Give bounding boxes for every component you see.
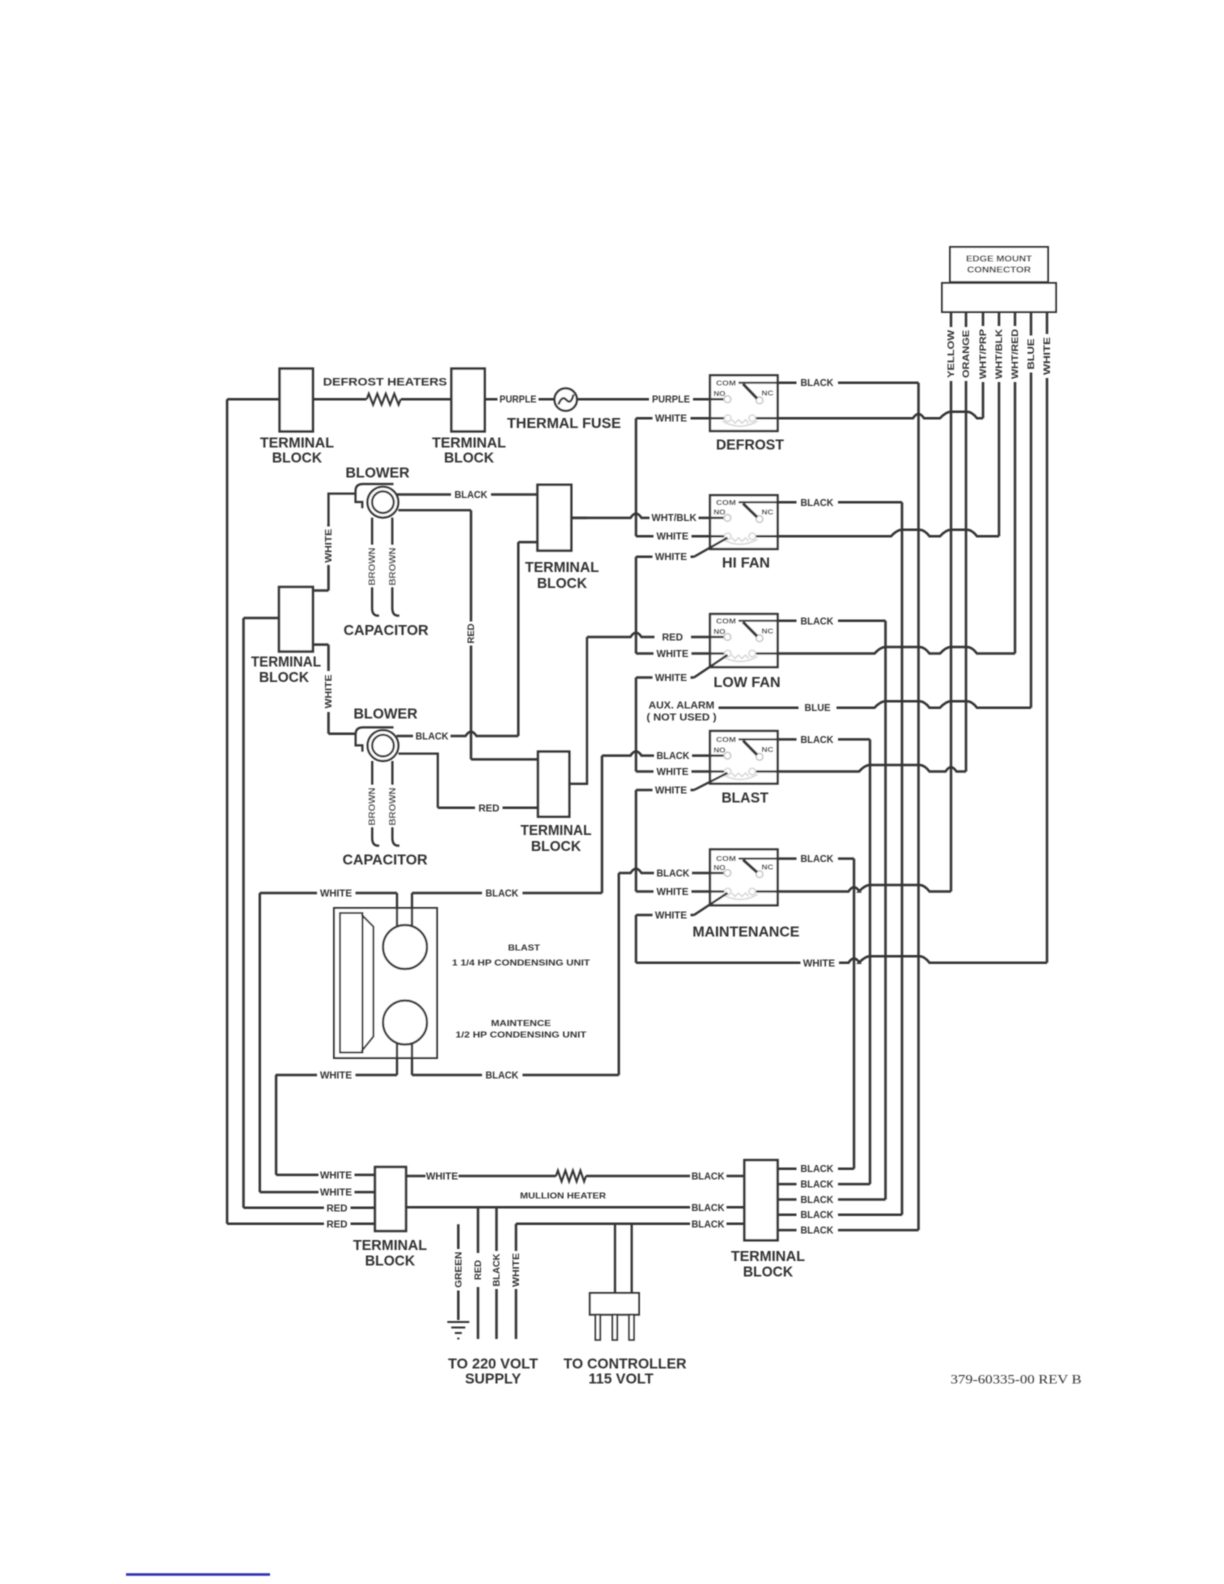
svg-text:BLOCK: BLOCK <box>537 575 587 592</box>
edge mount connector body <box>950 247 1048 282</box>
svg-text:BLAST: BLAST <box>508 943 541 953</box>
capacitor C2 wires <box>372 761 379 846</box>
svg-text:RED: RED <box>473 1259 483 1280</box>
svg-text:COM: COM <box>716 380 736 387</box>
wire MAINT aux diagonal <box>694 893 728 915</box>
ground symbol <box>447 1322 469 1339</box>
svg-text:TERMINAL: TERMINAL <box>353 1237 427 1254</box>
switch HI FAN COM line <box>739 501 778 503</box>
condensing unit panel <box>340 913 363 1053</box>
capacitor C2 wire label gaps <box>365 785 397 827</box>
wire B2 black to riser x=518 <box>397 732 519 736</box>
wire LOW FAN lamp input WHITE (left) <box>636 652 710 655</box>
switch LOW FAN NC contact <box>756 635 763 642</box>
switch MAINTENANCE NO contact <box>724 870 731 877</box>
terminal block TB4 <box>279 587 313 652</box>
bus wire MAINT black vertical <box>853 859 856 1169</box>
svg-text:WHITE: WHITE <box>657 887 689 898</box>
svg-text:BLACK: BLACK <box>692 1203 726 1214</box>
svg-text:RED: RED <box>662 633 683 644</box>
svg-text:WHITE: WHITE <box>657 532 689 543</box>
svg-text:BLOCK: BLOCK <box>365 1253 415 1270</box>
wire BLAST lamp to ORANGE <box>778 765 966 772</box>
wire connector BLUE (x=1031) <box>1030 312 1033 708</box>
svg-text:WHITE: WHITE <box>655 785 687 796</box>
footer blue rule <box>126 1573 270 1575</box>
svg-text:115 VOLT: 115 VOLT <box>589 1371 654 1388</box>
wire TB3 to HI FAN (WHT/BLK feed) <box>571 517 587 520</box>
svg-text:BLACK: BLACK <box>416 732 450 743</box>
switch BLAST box <box>710 731 778 784</box>
svg-text:BLACK: BLACK <box>657 869 691 880</box>
switch HI FAN lamp <box>723 533 758 544</box>
wire riser x=518 to TB3 <box>517 542 520 736</box>
svg-text:NC: NC <box>762 509 774 516</box>
svg-text:MAINTENCE: MAINTENCE <box>491 1018 551 1028</box>
svg-text:BLACK: BLACK <box>486 1071 520 1082</box>
wire connector WHT/RED (x=1015) <box>1014 312 1017 654</box>
capacitor C1 wires <box>372 518 379 616</box>
svg-text:WHITE: WHITE <box>655 673 687 684</box>
svg-text:WHITE: WHITE <box>320 1170 352 1181</box>
wire TB4 second white to blower B2 <box>313 643 329 646</box>
switch LOW FAN box <box>710 614 778 667</box>
wire white chain x=636 maint-to-common <box>635 915 638 963</box>
switch HI FAN NO contact <box>724 515 731 522</box>
svg-text:BLACK: BLACK <box>486 889 520 900</box>
switch MAINTENANCE lever <box>743 860 757 872</box>
wire connector YELLOW (x=951) <box>950 312 953 892</box>
svg-text:379-60335-00 REV B: 379-60335-00 REV B <box>951 1372 1082 1387</box>
svg-text:PURPLE: PURPLE <box>652 395 690 406</box>
svg-text:WHITE: WHITE <box>426 1172 458 1183</box>
wire white chain x=636 defrost-to-hifan <box>635 418 638 536</box>
svg-text:TERMINAL: TERMINAL <box>521 822 592 839</box>
switch BLAST lamp <box>723 768 758 779</box>
wire connector ORANGE (x=966) <box>965 312 968 772</box>
svg-text:BLACK: BLACK <box>801 1164 835 1175</box>
svg-text:BLACK: BLACK <box>492 1253 502 1287</box>
wire AUX ALARM to BLUE <box>719 701 1032 708</box>
svg-text:BLOCK: BLOCK <box>444 450 494 467</box>
terminal block TB5 <box>538 752 569 817</box>
switch MAINTENANCE lamp <box>723 888 758 899</box>
svg-text:PURPLE: PURPLE <box>500 395 537 406</box>
wire BLAST aux WHITE stub <box>636 789 694 792</box>
wire blast compressor white (left) <box>396 893 398 927</box>
wire MAINTENANCE lamp input WHITE (left) <box>636 890 710 893</box>
svg-text:BLACK: BLACK <box>801 378 835 389</box>
wire controller plug leads <box>615 1224 632 1293</box>
wire DEFROST lamp input WHITE (left) <box>636 417 710 420</box>
svg-text:BLOCK: BLOCK <box>743 1264 793 1281</box>
svg-text:WHT/BLK: WHT/BLK <box>652 513 698 524</box>
wire blast compressor black (right) <box>411 893 413 927</box>
svg-text:BLACK: BLACK <box>801 1195 835 1206</box>
wire LOW FAN lamp to WHT/RED <box>778 647 1015 654</box>
svg-text:AUX. ALARM: AUX. ALARM <box>649 701 715 712</box>
wire controller row y=1223.8 <box>516 1223 744 1226</box>
svg-text:WHITE: WHITE <box>511 1253 521 1287</box>
svg-text:WHITE: WHITE <box>324 529 334 563</box>
wire BLAST COM output BLACK <box>778 738 870 741</box>
wire WHITE supply <box>515 1224 518 1339</box>
switch DEFROST NO contact <box>724 396 731 403</box>
wire TB4 feed from left riser x=243 <box>242 618 245 1208</box>
wire BLAST lamp input WHITE (left) <box>636 770 710 773</box>
condensing unit maintenance compressor <box>383 1001 427 1045</box>
left border wire (x=227) <box>226 399 229 1224</box>
svg-text:DEFROST HEATERS: DEFROST HEATERS <box>323 377 447 389</box>
svg-text:CONNECTOR: CONNECTOR <box>967 265 1031 275</box>
wire HI FAN aux diagonal <box>694 538 728 557</box>
svg-text:NC: NC <box>762 391 774 398</box>
svg-text:TERMINAL: TERMINAL <box>251 654 321 671</box>
svg-text:BLUE: BLUE <box>1026 339 1036 370</box>
controller plug body <box>590 1293 639 1315</box>
svg-text:MULLION HEATER: MULLION HEATER <box>520 1191 606 1201</box>
wire connector WHT/BLK (x=999) <box>998 312 1001 536</box>
wire LOW FAN aux WHITE stub <box>636 676 694 679</box>
wire BLAST NO input BLACK <box>602 751 710 755</box>
switch BLAST lamp stubs <box>710 770 725 772</box>
svg-text:BLACK: BLACK <box>801 616 835 627</box>
svg-text:BLACK: BLACK <box>801 1226 835 1237</box>
svg-text:BLACK: BLACK <box>657 751 691 762</box>
switch MAINTENANCE NO input stub <box>710 872 724 874</box>
switch DEFROST box <box>710 375 778 431</box>
wire HI FAN lamp input WHITE (left) <box>636 535 710 538</box>
wire white chain x=636 blast-to-maint <box>635 790 638 892</box>
wire common white row to WHITE connector <box>636 956 1047 963</box>
svg-text:BLACK: BLACK <box>801 1210 835 1221</box>
wire DEFROST lamp to WHT/PRP <box>778 412 983 419</box>
switch BLAST NO contact <box>724 752 731 759</box>
svg-text:TERMINAL: TERMINAL <box>525 559 599 576</box>
wire supply row y=1207 <box>406 1206 744 1209</box>
wire maint compressor white (left) <box>396 1043 398 1075</box>
svg-text:WHITE: WHITE <box>655 413 687 424</box>
svg-text:COM: COM <box>716 500 736 507</box>
svg-text:RED: RED <box>466 623 476 644</box>
svg-text:MAINTENANCE: MAINTENANCE <box>693 924 800 941</box>
switch HI FAN NO input stub <box>710 517 724 519</box>
svg-text:BROWN: BROWN <box>367 788 377 826</box>
wire LOW FAN NO input RED <box>587 633 710 637</box>
svg-text:BROWN: BROWN <box>387 548 397 586</box>
wire HI FAN NO input WHT/BLK <box>571 514 710 518</box>
switch HI FAN lamp stubs <box>710 535 725 537</box>
svg-text:WHT/PRP: WHT/PRP <box>978 329 988 379</box>
svg-text:BLACK: BLACK <box>801 498 835 509</box>
switch DEFROST COM line <box>739 382 778 384</box>
svg-text:BLACK: BLACK <box>692 1219 726 1230</box>
svg-text:WHT/RED: WHT/RED <box>1010 328 1020 379</box>
svg-text:1/2 HP CONDENSING UNIT: 1/2 HP CONDENSING UNIT <box>456 1030 588 1040</box>
svg-text:COM: COM <box>716 737 736 744</box>
svg-text:THERMAL FUSE: THERMAL FUSE <box>507 415 621 432</box>
wire MAINTENANCE NO input BLACK <box>619 869 710 873</box>
svg-text:BLACK: BLACK <box>801 854 835 865</box>
svg-text:WHITE: WHITE <box>324 675 334 709</box>
wire white riser x=260 (blast) to TB6 <box>259 893 262 1192</box>
switch DEFROST lamp stubs <box>710 417 725 419</box>
switch LOW FAN COM line <box>739 620 778 622</box>
wire TB7 output 1 BLACK <box>778 1167 854 1170</box>
wire MAINT condensing black riser x=619 <box>618 873 621 1075</box>
wire connector WHT/PRP (x=983) <box>982 312 985 418</box>
wire LOW FAN aux diagonal <box>694 655 728 678</box>
svg-text:WHT/BLK: WHT/BLK <box>994 328 1004 379</box>
wire TB7 output 4 BLACK <box>778 1213 902 1216</box>
switch DEFROST lamp <box>723 415 758 426</box>
svg-text:NC: NC <box>762 864 774 871</box>
svg-text:LOW FAN: LOW FAN <box>714 674 781 691</box>
svg-text:WHITE: WHITE <box>655 552 687 563</box>
switch LOW FAN NO contact <box>724 634 731 641</box>
svg-text:BLOWER: BLOWER <box>346 465 410 482</box>
wire BLACK supply <box>495 1207 498 1339</box>
wire HI FAN aux WHITE stub <box>636 555 694 558</box>
wire HI FAN lamp to WHT/BLK <box>778 530 999 537</box>
switch DEFROST lever <box>743 384 757 399</box>
bus wire DEFROST black vertical <box>917 383 920 1230</box>
svg-text:BLOWER: BLOWER <box>354 706 418 723</box>
capacitor C1 wire label gaps <box>365 545 397 587</box>
svg-text:BLACK: BLACK <box>692 1172 726 1183</box>
wire TB2 to thermal fuse, PURPLE <box>485 398 555 401</box>
svg-text:BLUE: BLUE <box>805 703 831 714</box>
svg-text:DEFROST: DEFROST <box>716 437 784 454</box>
blower B2 rotor <box>368 730 399 761</box>
terminal block TB6 <box>375 1167 406 1231</box>
wire DEFROST COM output BLACK <box>778 381 919 384</box>
svg-text:WHITE: WHITE <box>320 889 352 900</box>
svg-text:BLAST: BLAST <box>722 790 769 807</box>
blower B1 housing <box>356 484 394 508</box>
switch HI FAN NC contact <box>756 516 763 523</box>
wire GREEN supply <box>457 1224 460 1320</box>
svg-text:BLACK: BLACK <box>801 1180 835 1191</box>
switch HI FAN box <box>710 495 778 549</box>
switch MAINTENANCE lamp stubs <box>710 890 725 892</box>
switch LOW FAN lever <box>743 622 757 636</box>
switch DEFROST NC contact <box>756 397 763 404</box>
switch HI FAN lever <box>743 504 757 518</box>
svg-text:COM: COM <box>716 856 736 863</box>
terminal block TB3 <box>538 485 572 551</box>
wire MAINTENANCE COM output BLACK <box>778 857 854 860</box>
bus wire BLAST black vertical <box>869 739 872 1184</box>
wire maint compressor black (right) <box>411 1043 413 1075</box>
svg-text:YELLOW: YELLOW <box>946 329 956 378</box>
terminal block TB1 <box>280 369 313 432</box>
svg-text:WHITE: WHITE <box>657 767 689 778</box>
svg-text:RED: RED <box>479 803 500 814</box>
svg-text:BLOCK: BLOCK <box>259 669 309 686</box>
svg-text:WHITE: WHITE <box>320 1071 352 1082</box>
svg-text:BLOCK: BLOCK <box>531 838 581 855</box>
svg-text:BLACK: BLACK <box>455 490 489 501</box>
wire B1 red down to TB5 <box>398 509 471 511</box>
svg-text:WHITE: WHITE <box>657 649 689 660</box>
switch MAINTENANCE COM line <box>739 858 778 860</box>
wire connector WHITE (x=1047) <box>1046 312 1049 963</box>
svg-text:WHITE: WHITE <box>320 1188 352 1199</box>
terminal block TB2 <box>451 369 484 432</box>
wire HI FAN COM output BLACK <box>778 501 902 504</box>
thermal fuse F1 <box>555 388 577 410</box>
controller plug prongs <box>595 1315 600 1340</box>
wire MAINTENANCE lamp to YELLOW <box>778 885 951 892</box>
wire B2 red to TB5 <box>398 754 437 808</box>
blower B1 rotor <box>368 487 399 518</box>
wire B1 white to TB4 <box>329 494 356 524</box>
edge mount connector base <box>942 283 1056 312</box>
wire TB7 output 5 BLACK <box>778 1229 919 1232</box>
wire mullion heater <box>406 1175 744 1178</box>
svg-text:SUPPLY: SUPPLY <box>465 1371 521 1388</box>
svg-text:NC: NC <box>762 628 774 635</box>
svg-text:ORANGE: ORANGE <box>961 330 971 378</box>
switch MAINTENANCE box <box>710 849 778 905</box>
wire white riser x=276 (maint) to TB6 <box>275 1075 278 1175</box>
svg-text:CAPACITOR: CAPACITOR <box>343 852 428 869</box>
terminal block TB7 <box>744 1160 777 1240</box>
svg-text:RED: RED <box>327 1203 348 1214</box>
wire B1 black to TB3 <box>396 493 538 496</box>
wire fuse to DEFROST NO, PURPLE <box>577 398 710 401</box>
switch LOW FAN NO input stub <box>710 636 724 638</box>
switch MAINTENANCE NC contact <box>756 871 763 878</box>
svg-text:RED: RED <box>327 1219 348 1230</box>
wire riser x=243 to TB6 RED row3 <box>244 1207 376 1210</box>
svg-text:TERMINAL: TERMINAL <box>731 1248 805 1265</box>
bus wire HI FAN black vertical <box>901 502 904 1214</box>
wire RED supply <box>477 1207 480 1339</box>
switch BLAST COM line <box>739 738 778 740</box>
switch LOW FAN lamp <box>723 650 758 661</box>
svg-text:BLACK: BLACK <box>801 735 835 746</box>
svg-text:EDGE MOUNT: EDGE MOUNT <box>966 254 1033 264</box>
switch DEFROST NO input stub <box>710 398 724 400</box>
svg-text:CAPACITOR: CAPACITOR <box>344 622 429 639</box>
wire MAINT aux WHITE stub <box>636 914 694 917</box>
wire LOW FAN COM output BLACK <box>778 620 886 623</box>
switch BLAST lever <box>743 741 757 755</box>
wire TB7 output 2 BLACK <box>778 1183 870 1186</box>
blower B2 housing <box>356 727 394 751</box>
svg-text:1 1/4 HP CONDENSING UNIT: 1 1/4 HP CONDENSING UNIT <box>452 958 591 968</box>
svg-text:GREEN: GREEN <box>453 1252 463 1288</box>
wire white chain x=636 hifan-to-lowfan <box>635 557 638 654</box>
svg-text:BROWN: BROWN <box>387 788 397 826</box>
svg-text:BLOCK: BLOCK <box>272 450 322 467</box>
wire BLAST condensing black riser x=602 <box>601 756 604 893</box>
svg-text:HI FAN: HI FAN <box>722 555 770 572</box>
svg-text:( NOT USED ): ( NOT USED ) <box>647 713 717 724</box>
svg-text:COM: COM <box>716 618 736 625</box>
svg-text:BROWN: BROWN <box>367 548 377 586</box>
wire white chain x=636 lowfan-to-blast <box>635 678 638 772</box>
wire TB5 to LOW FAN RED riser <box>569 637 587 784</box>
wire TB7 output 3 BLACK <box>778 1198 886 1201</box>
svg-text:WHITE: WHITE <box>803 958 835 969</box>
condensing unit frame <box>334 908 437 1058</box>
resistor defrost heaters <box>313 398 367 401</box>
switch BLAST NC contact <box>756 753 763 760</box>
svg-text:NC: NC <box>762 747 774 754</box>
wire left border top segment to TB1 <box>227 398 280 401</box>
switch LOW FAN lamp stubs <box>710 652 725 654</box>
wire BLAST aux diagonal <box>694 773 728 790</box>
condensing unit blast compressor <box>383 925 427 969</box>
switch BLAST NO input stub <box>710 754 724 756</box>
svg-text:WHITE: WHITE <box>1042 337 1052 375</box>
bus wire LOW FAN black vertical <box>884 621 887 1200</box>
svg-text:WHITE: WHITE <box>655 910 687 921</box>
wire left border to TB6 RED row <box>227 1223 375 1226</box>
